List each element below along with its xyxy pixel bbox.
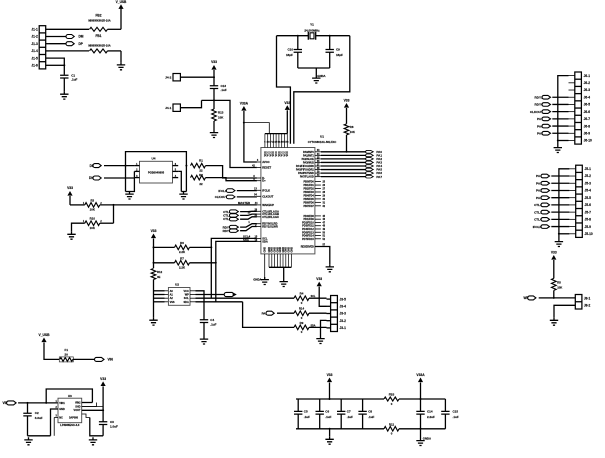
svg-text:U3: U3 xyxy=(68,394,72,398)
svg-text:RDY1/SLWR: RDY1/SLWR xyxy=(262,225,278,229)
wire U4 left ground xyxy=(125,166,127,192)
svg-text:SDA: SDA xyxy=(262,239,268,243)
net tag WP (U2) xyxy=(196,294,227,296)
ground (R13) xyxy=(210,130,218,138)
capacitor C9 (xtal) xyxy=(329,36,331,50)
svg-text:NC: NC xyxy=(59,417,63,420)
svg-text:VIN: VIN xyxy=(108,358,114,362)
svg-text:U2: U2 xyxy=(175,283,179,287)
svg-text:1.0uF: 1.0uF xyxy=(110,425,118,429)
svg-text:J3-1: J3-1 xyxy=(340,326,347,330)
U1 left pin labels xyxy=(262,160,279,243)
ground (bypass) xyxy=(329,429,331,437)
svg-text:J3-2: J3-2 xyxy=(340,319,347,323)
svg-text:C2: C2 xyxy=(35,411,39,415)
wire J6 ground bus xyxy=(558,76,569,145)
svg-text:SHD: SHD xyxy=(75,405,80,408)
svg-text:FB2: FB2 xyxy=(95,14,101,18)
connector J1 xyxy=(39,26,46,69)
ground (U4 right) xyxy=(179,192,187,200)
net tag DP xyxy=(66,42,74,46)
svg-text:V33A: V33A xyxy=(240,102,249,106)
ground (C4) xyxy=(200,337,208,345)
ferrite FB1 xyxy=(90,49,108,53)
svg-text:J5-3: J5-3 xyxy=(585,181,592,185)
svg-text:R11: R11 xyxy=(389,422,395,426)
power V33 (U1) xyxy=(285,105,290,110)
wire V33A to bus xyxy=(244,123,269,134)
svg-text:MI0805K601R-10A: MI0805K601R-10A xyxy=(88,19,110,23)
svg-text:2.2K: 2.2K xyxy=(179,265,186,269)
capacitor C6 xyxy=(319,399,321,411)
svg-text:J1-4: J1-4 xyxy=(31,49,38,53)
svg-text:C6: C6 xyxy=(325,410,329,414)
wire reg input loop xyxy=(46,389,92,403)
ground (U1 digital) xyxy=(280,279,288,287)
svg-text:VCC: VCC xyxy=(286,151,289,156)
svg-text:V33: V33 xyxy=(327,373,333,377)
net tags PA0-PA7 xyxy=(366,150,374,153)
wire FB2 to V_USB xyxy=(108,28,122,30)
ground (R10) xyxy=(67,232,75,240)
power V_USB xyxy=(118,4,123,9)
wire V33A to AVCC xyxy=(244,123,257,162)
wire VCC top bus xyxy=(265,133,287,135)
U1 PB pins xyxy=(304,181,315,208)
connector J6 xyxy=(575,72,582,144)
connector J3 xyxy=(331,296,338,332)
svg-text:V33: V33 xyxy=(67,186,73,190)
connector J5 xyxy=(576,165,583,237)
svg-text:C7: C7 xyxy=(347,410,351,414)
svg-text:V33: V33 xyxy=(284,101,290,105)
power V33 (J3) xyxy=(317,282,322,287)
ground (shield) xyxy=(117,62,125,70)
svg-text:V33: V33 xyxy=(316,277,322,281)
svg-text:PA0/INT0: PA0/INT0 xyxy=(303,151,314,154)
wire reg bottom right rail xyxy=(90,418,103,436)
svg-text:AVCC: AVCC xyxy=(262,160,269,164)
svg-text:IFCLK: IFCLK xyxy=(262,188,270,192)
wire bottom gnd bus xyxy=(269,266,291,268)
wire bypass bottom bus xyxy=(296,428,384,430)
svg-text:V33: V33 xyxy=(211,60,217,64)
svg-text:2.2K: 2.2K xyxy=(179,250,186,254)
svg-text:C10: C10 xyxy=(287,48,293,52)
connector J4-2 xyxy=(173,74,180,81)
wire J8-2 ground xyxy=(554,305,575,317)
svg-text:R2: R2 xyxy=(199,173,203,177)
svg-text:J6-3: J6-3 xyxy=(584,88,591,92)
wire J5 ground bus xyxy=(559,169,570,239)
U1 PD pins xyxy=(302,215,314,241)
ferrite FB2 xyxy=(90,27,108,31)
svg-text:GND: GND xyxy=(290,247,293,253)
svg-text:J6-4: J6-4 xyxy=(584,95,591,99)
resistor R14 xyxy=(294,311,309,316)
svg-text:V33: V33 xyxy=(151,229,157,233)
svg-text:MI0805K601R-10A: MI0805K601R-10A xyxy=(88,43,110,47)
svg-text:CLKOUT: CLKOUT xyxy=(262,194,274,198)
ground GNDA (bypass) xyxy=(420,429,422,438)
svg-text:10K: 10K xyxy=(90,226,96,230)
svg-text:SDA: SDA xyxy=(184,301,189,304)
capacitor C7 xyxy=(340,399,342,411)
wire bypass top bus xyxy=(296,398,384,400)
svg-text:R12: R12 xyxy=(157,270,163,274)
svg-text:R3: R3 xyxy=(90,198,94,202)
svg-text:GND: GND xyxy=(59,408,65,411)
svg-text:R14: R14 xyxy=(299,307,305,311)
net tag VIN (fuse) xyxy=(73,358,97,360)
ground (C1) xyxy=(60,92,68,100)
wire J1-3 to DP xyxy=(50,43,69,45)
svg-text:24.000MHz: 24.000MHz xyxy=(304,28,320,32)
resistor R1 xyxy=(191,163,206,168)
svg-text:J1-5: J1-5 xyxy=(31,56,38,60)
svg-text:J1-1: J1-1 xyxy=(31,28,38,32)
svg-text:10K: 10K xyxy=(90,208,96,212)
svg-text:J4-2: J4-2 xyxy=(165,76,171,80)
svg-text:2.2uF: 2.2uF xyxy=(427,415,435,419)
ground (C3) xyxy=(89,437,97,445)
wire U2 VCC to C4 xyxy=(196,291,205,320)
svg-text:VSS: VSS xyxy=(170,301,175,304)
wire J1-5 J1-6 join xyxy=(50,58,65,75)
power V33 (WP) xyxy=(551,255,556,260)
capacitor C14 xyxy=(420,399,422,411)
ground (U4 left) xyxy=(125,192,133,200)
svg-text:10K: 10K xyxy=(557,285,562,289)
svg-text:C4: C4 xyxy=(210,318,214,322)
U1 bottom pins xyxy=(264,247,294,253)
svg-text:J8-2: J8-2 xyxy=(584,304,591,308)
svg-text:VOUT: VOUT xyxy=(74,409,81,412)
svg-text:22: 22 xyxy=(199,182,203,186)
ground (C2) xyxy=(24,437,32,445)
svg-text:VIN2: VIN2 xyxy=(75,401,81,404)
wire EEPROM address pins xyxy=(154,290,165,292)
wire R2 to D+ xyxy=(206,178,257,181)
svg-text:J5-1: J5-1 xyxy=(585,167,592,171)
wire J1-4 to FB1 xyxy=(50,50,90,52)
svg-text:J1-2: J1-2 xyxy=(31,35,38,39)
svg-text:GND: GND xyxy=(264,247,267,253)
svg-text:C13: C13 xyxy=(221,84,227,88)
wire R6 to SCL xyxy=(190,246,212,248)
wire SCL rail xyxy=(196,297,295,299)
svg-text:10K: 10K xyxy=(350,130,355,134)
svg-text:R10: R10 xyxy=(90,217,96,221)
svg-text:J1-6: J1-6 xyxy=(31,64,38,68)
wire RESET net xyxy=(202,100,257,167)
svg-text:R1: R1 xyxy=(199,158,203,162)
wire R1 to D- xyxy=(206,166,257,178)
wire R10 to ground xyxy=(72,223,85,232)
svg-text:22: 22 xyxy=(199,169,203,173)
svg-text:3AP080: 3AP080 xyxy=(69,417,79,420)
power V33 (bypass) xyxy=(327,378,332,383)
capacitor C3 xyxy=(99,422,107,425)
svg-text:V_USB: V_USB xyxy=(39,333,51,337)
net tag DM xyxy=(66,35,74,39)
wire J3-2 ground xyxy=(321,320,327,336)
wire U3 GND pin xyxy=(51,409,59,436)
svg-text:PA1/INT1: PA1/INT1 xyxy=(303,154,314,157)
capacitor C15 xyxy=(444,399,446,411)
svg-text:.1uF: .1uF xyxy=(453,415,459,419)
svg-text:.1uF: .1uF xyxy=(210,323,216,327)
ground (J3) xyxy=(316,336,324,344)
ground (J5) xyxy=(555,239,563,247)
svg-text:J8-1: J8-1 xyxy=(584,296,591,300)
svg-text:Y1: Y1 xyxy=(310,22,314,26)
wire xtal cap ground rail xyxy=(298,67,330,69)
svg-text:J3-3: J3-3 xyxy=(340,312,347,316)
svg-text:V_USB: V_USB xyxy=(116,0,127,4)
capacitor C8 xyxy=(362,399,364,411)
svg-text:C3: C3 xyxy=(110,420,114,424)
svg-text:WP: WP xyxy=(185,294,189,297)
resistor R7 xyxy=(175,261,190,266)
svg-text:J4-1: J4-1 xyxy=(165,106,171,110)
svg-text:J3-5: J3-5 xyxy=(340,297,347,301)
resistor R2 xyxy=(191,175,206,180)
svg-text:C8: C8 xyxy=(368,410,372,414)
power V33 (regulator) xyxy=(101,381,106,386)
svg-text:PA4/FIFOADR0: PA4/FIFOADR0 xyxy=(296,165,314,168)
wire U4 right ground xyxy=(178,171,181,191)
wire R7 to SDA xyxy=(190,262,216,264)
svg-text:J5-7: J5-7 xyxy=(585,210,592,214)
svg-text:.1uF: .1uF xyxy=(221,88,227,92)
svg-text:SCL: SCL xyxy=(184,297,189,300)
svg-text:R4: R4 xyxy=(300,292,304,296)
svg-text:J6-6: J6-6 xyxy=(584,110,591,114)
svg-text:FB3: FB3 xyxy=(389,393,395,397)
svg-text:J6-8: J6-8 xyxy=(584,124,591,128)
svg-text:J3-4: J3-4 xyxy=(340,305,347,309)
svg-text:WAKEUP: WAKEUP xyxy=(262,203,274,207)
svg-text:FB1: FB1 xyxy=(95,34,101,38)
ground (J8) xyxy=(550,318,558,326)
svg-text:.1uF: .1uF xyxy=(71,78,77,82)
svg-text:J6-7: J6-7 xyxy=(584,117,591,121)
svg-text:CLKOUT: CLKOUT xyxy=(530,110,543,114)
svg-text:PA3/WU2: PA3/WU2 xyxy=(303,161,315,164)
svg-text:DM: DM xyxy=(79,35,84,39)
resistor R12 xyxy=(151,269,156,280)
resistor R9 xyxy=(294,325,309,330)
svg-text:R13: R13 xyxy=(218,110,224,114)
resistor R6 xyxy=(175,245,190,250)
svg-text:PGB0040805: PGB0040805 xyxy=(148,171,165,175)
svg-text:18pF: 18pF xyxy=(286,53,293,57)
ground (J6) xyxy=(554,145,562,153)
svg-text:J5-10: J5-10 xyxy=(585,232,593,236)
svg-text:CTL2/FLAGC: CTL2/FLAGC xyxy=(262,215,279,219)
svg-text:C14: C14 xyxy=(427,410,433,414)
svg-text:VIN1: VIN1 xyxy=(59,402,65,405)
wire reg bottom left rail xyxy=(28,435,51,437)
svg-text:RESET: RESET xyxy=(262,166,271,170)
svg-text:D+: D+ xyxy=(262,179,266,183)
svg-text:10K: 10K xyxy=(218,115,224,119)
power V33A (U1) xyxy=(241,106,246,111)
svg-text:.1uF: .1uF xyxy=(347,415,353,419)
power V33 (J4) xyxy=(211,65,216,70)
svg-text:PA7/FLAGD: PA7/FLAGD xyxy=(300,176,314,179)
svg-text:C9: C9 xyxy=(336,48,340,52)
svg-text:V33: V33 xyxy=(344,99,350,103)
svg-text:PA2/SLOE: PA2/SLOE xyxy=(302,158,315,161)
svg-text:VCC: VCC xyxy=(184,290,189,293)
svg-text:C15: C15 xyxy=(453,410,459,414)
svg-text:R5: R5 xyxy=(557,280,561,284)
svg-text:J6-10: J6-10 xyxy=(584,139,592,143)
wire WP to J8-1 xyxy=(554,297,576,299)
svg-text:J6-2: J6-2 xyxy=(584,81,591,85)
capacitor C4 xyxy=(200,320,208,323)
svg-text:2A: 2A xyxy=(65,352,69,356)
svg-text:J5-6: J5-6 xyxy=(585,203,592,207)
wire U4 top loop xyxy=(126,152,187,166)
svg-text:V33A: V33A xyxy=(416,373,425,377)
U1 PA pins xyxy=(296,151,314,179)
capacitor C5 xyxy=(297,399,299,411)
svg-text:CLKOUT: CLKOUT xyxy=(215,195,228,199)
svg-text:J6-1: J6-1 xyxy=(584,74,591,78)
svg-text:C5: C5 xyxy=(304,410,308,414)
capacitor C2 xyxy=(27,403,29,413)
capacitor C13 xyxy=(210,86,218,89)
connector J4-1 xyxy=(173,104,180,111)
svg-text:J5-5: J5-5 xyxy=(585,196,592,200)
resistor R4 xyxy=(294,296,309,301)
svg-text:0E: 0E xyxy=(157,275,161,279)
wire U3 outputs xyxy=(82,402,93,404)
wire FB1 to ground xyxy=(108,50,122,52)
wire R3 to WAKEUP xyxy=(100,204,257,206)
svg-text:LP3966ESO-3.3: LP3966ESO-3.3 xyxy=(60,423,80,427)
svg-text:PA7: PA7 xyxy=(376,175,382,179)
svg-text:J5-2: J5-2 xyxy=(585,174,592,178)
wire J1-1 to FB2 xyxy=(50,28,90,30)
svg-text:CY7C68013A-56LFXC: CY7C68013A-56LFXC xyxy=(308,140,337,144)
svg-text:.1uF: .1uF xyxy=(368,415,374,419)
svg-text:J5-4: J5-4 xyxy=(585,189,592,193)
svg-text:.1uF: .1uF xyxy=(325,415,331,419)
svg-text:R9: R9 xyxy=(300,321,304,325)
connector J8 xyxy=(575,295,582,310)
svg-text:R6: R6 xyxy=(180,241,184,245)
ferrite FB3 xyxy=(384,397,399,401)
svg-text:J6-5: J6-5 xyxy=(584,103,591,107)
svg-text:PB7/FD7: PB7/FD7 xyxy=(304,205,315,208)
svg-text:J5-9: J5-9 xyxy=(585,225,592,229)
wire SDA rail xyxy=(196,301,243,303)
svg-text:GNDA: GNDA xyxy=(253,278,261,282)
svg-text:R8: R8 xyxy=(350,125,354,129)
ground (U1 reserved) xyxy=(326,264,334,272)
capacitor C1 xyxy=(60,75,68,78)
power V_USB (fuse) xyxy=(41,338,46,343)
wire J1-2 to DM xyxy=(50,36,69,38)
resistor R11 xyxy=(384,427,399,432)
resistor R8 pullup xyxy=(344,103,349,108)
wire crystal top loop xyxy=(277,35,309,37)
power V33A (bypass) xyxy=(418,378,423,383)
svg-text:18pF: 18pF xyxy=(336,53,343,57)
ground (EEPROM) xyxy=(149,318,157,326)
svg-text:R7: R7 xyxy=(180,256,184,260)
svg-text:J1-3: J1-3 xyxy=(31,42,38,46)
svg-text:PD7/FD15: PD7/FD15 xyxy=(302,238,314,241)
resistor R3 xyxy=(85,203,100,208)
svg-text:J6-9: J6-9 xyxy=(584,131,591,135)
power V33 (divider) xyxy=(67,191,72,196)
svg-text:PA6/PKTEND: PA6/PKTEND xyxy=(298,172,314,175)
wire SDA to J3-1 xyxy=(243,302,294,328)
capacitor C10 (xtal) xyxy=(297,36,299,50)
resistor R10 xyxy=(85,221,100,226)
resistor R5 pullup xyxy=(552,278,557,290)
svg-text:J5-8: J5-8 xyxy=(585,218,592,222)
svg-text:RESERVED: RESERVED xyxy=(301,246,314,249)
power V33 (EEPROM) xyxy=(151,234,156,239)
svg-text:V33: V33 xyxy=(100,377,106,381)
svg-text:.1uF: .1uF xyxy=(304,415,310,419)
svg-text:U1: U1 xyxy=(320,134,324,138)
svg-text:MASTER: MASTER xyxy=(238,201,251,205)
svg-text:3.3uF: 3.3uF xyxy=(35,416,43,420)
svg-text:U4: U4 xyxy=(152,156,156,160)
resistor R13 xyxy=(212,109,217,121)
svg-text:V33: V33 xyxy=(551,251,557,255)
wire PA bundle xyxy=(321,151,367,153)
svg-text:PA5/FIFOADR1: PA5/FIFOADR1 xyxy=(296,169,314,172)
